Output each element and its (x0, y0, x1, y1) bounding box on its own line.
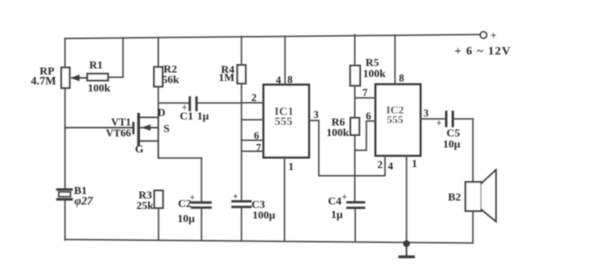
resistor R5 (350, 66, 360, 86)
speaker B2 (465, 182, 481, 211)
svg-text:6: 6 (254, 131, 259, 142)
resistor R6 (350, 118, 359, 135)
ground (406, 244, 408, 256)
capacitor C2 (192, 201, 211, 203)
svg-text:VT1: VT1 (111, 118, 131, 129)
svg-text:100k: 100k (88, 83, 112, 95)
svg-text:3: 3 (313, 110, 318, 121)
potentiometer RP (61, 68, 69, 89)
svg-text:10μ: 10μ (178, 213, 196, 225)
capacitor C5 (445, 112, 447, 126)
IC2 pin 3 (421, 118, 447, 120)
svg-text:1μ: 1μ (331, 209, 344, 221)
wire top rail (65, 35, 480, 39)
svg-text:100μ: 100μ (253, 210, 277, 222)
capacitor C4 (348, 201, 365, 203)
svg-text:10μ: 10μ (443, 139, 461, 151)
svg-text:VT66: VT66 (106, 129, 131, 140)
svg-text:1μ: 1μ (197, 111, 210, 123)
svg-text:G: G (135, 144, 144, 156)
svg-text:4: 4 (276, 76, 282, 87)
wire R5-R6 bus (354, 86, 356, 118)
wire R6 bottom bus down to C4 (354, 135, 356, 202)
svg-text:1: 1 (288, 162, 293, 173)
resistor R4 (237, 65, 245, 84)
piezo B1 (58, 190, 72, 200)
IC1 pins 4 8 top (284, 37, 286, 85)
svg-text:100k: 100k (363, 68, 387, 80)
svg-text:7: 7 (362, 88, 367, 99)
power terminal + 6~12V (480, 32, 486, 38)
svg-text:φ27: φ27 (75, 196, 94, 208)
svg-text:+ 6 ~ 12V: + 6 ~ 12V (455, 44, 512, 58)
svg-text:C4: C4 (328, 196, 342, 208)
resistor R2 (154, 67, 163, 87)
wiper arrow of RP (72, 77, 87, 79)
IC1 pin 3 (309, 121, 319, 176)
capacitor C1 (158, 102, 188, 104)
IC2 pin 6 (355, 121, 376, 150)
svg-text:8: 8 (287, 75, 292, 86)
svg-text:8: 8 (399, 74, 404, 85)
svg-text:555: 555 (275, 114, 293, 128)
wire C5 to speaker (472, 119, 474, 182)
capacitor C3 (233, 200, 251, 202)
svg-text:+: + (436, 119, 441, 129)
wire bottom rail (65, 240, 472, 244)
wire speaker bottom lead (472, 211, 474, 243)
IC2 pin 8 (394, 35, 396, 84)
svg-text:C1: C1 (180, 111, 193, 123)
svg-text:7: 7 (256, 143, 261, 154)
resistor R1 (87, 74, 108, 81)
resistor R3 (154, 191, 163, 209)
svg-text:+: + (342, 192, 347, 202)
svg-text:2: 2 (377, 160, 382, 171)
svg-text:2: 2 (251, 93, 256, 104)
transistor VT1 (VT66 FET) (133, 114, 158, 145)
wire S-branch to C2 (158, 157, 201, 159)
svg-text:25k: 25k (136, 200, 154, 212)
svg-text:6: 6 (366, 112, 371, 123)
wire gate lead (65, 127, 132, 129)
IC2 pin 7 (355, 97, 376, 99)
svg-text:555: 555 (387, 114, 404, 126)
svg-text:3: 3 (423, 109, 428, 120)
svg-text:+: + (233, 192, 238, 202)
node junction dot (403, 240, 410, 247)
IC1 pin 2 (242, 102, 264, 104)
wire R5 top lead (354, 35, 356, 66)
wire left vertical (RP branch, top rail to B1 to bottom rail) (64, 39, 66, 241)
svg-text:4.7M: 4.7M (31, 76, 56, 88)
svg-text:B2: B2 (448, 192, 461, 204)
svg-text:C2: C2 (178, 198, 192, 210)
svg-text:1: 1 (412, 159, 417, 170)
svg-text:56k: 56k (162, 74, 180, 86)
svg-text:1M: 1M (219, 72, 236, 84)
IC1 box (264, 85, 310, 158)
IC1 unlabeled stub (242, 119, 264, 121)
IC1 pin 7 (242, 150, 264, 152)
svg-text:R1: R1 (89, 60, 102, 72)
wire drain-source vertical to node (157, 117, 159, 158)
IC2 pin 1 (406, 156, 408, 244)
wire R2/drain vertical (157, 39, 159, 118)
wire R1 right lead up to rail (108, 38, 123, 77)
IC1 pin 6 (242, 139, 264, 141)
svg-text:S: S (164, 123, 170, 135)
IC2 box (376, 84, 421, 155)
IC1 pin 1 (284, 158, 286, 241)
svg-text:+: + (491, 31, 497, 42)
svg-text:4: 4 (388, 162, 394, 173)
IC2 pins 2 4 (319, 156, 385, 176)
wire R4 leads / bus left of IC1 (241, 37, 243, 202)
svg-text:100k: 100k (326, 127, 350, 139)
